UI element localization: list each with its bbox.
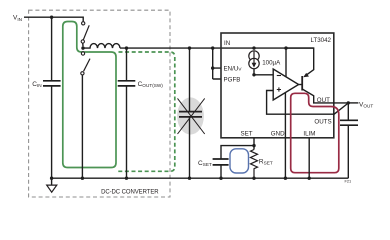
wire CSET bottom lead [220,165,222,178]
junction IN / amp supply [284,46,287,49]
svg-text:CIN: CIN [32,81,41,88]
ground rail [52,177,349,179]
wire to amp inverting input [254,74,273,76]
ground symbol [51,178,53,185]
wire COUT lower lead [347,125,349,178]
svg-text:ILIM: ILIM [303,131,315,138]
junction VIN/CIN [50,16,53,19]
wire COUT upper lead [347,103,349,120]
wire bypass cap upper lead [189,48,191,112]
wire amp supply [285,48,287,76]
current source I1 100uA [249,51,259,61]
wire CIN upper lead [51,17,53,81]
capacitor CIN [43,81,61,86]
switch S2 top contact [81,52,84,55]
junction IN / 100uA source [252,46,255,49]
wire amp output to base [299,84,303,86]
transistor Q1 collector wire to OUT [302,89,348,103]
inductor L1 [83,44,120,49]
plus sign [277,87,281,91]
junction IN rail / EN-UV tie [211,46,214,49]
wire EN/UV PGFB tie [213,48,221,79]
minus sign [277,75,281,77]
junction rail S2 [81,177,84,180]
svg-text:IN: IN [224,40,230,47]
wire OUTS kelvin diagonal [334,103,349,114]
svg-text:COUT(SW): COUT(SW) [138,81,164,88]
switch S2 bottom contact [81,72,84,75]
wire CIN lower lead [51,86,53,178]
junction IN rail / bypass cap [188,46,191,49]
junction rail ILIM [308,177,311,180]
wire ILIM to ground [308,138,310,178]
switch S1 blade [83,25,89,39]
resistor RSET [251,150,258,179]
capacitor COUT(SW) [118,81,136,86]
blue highlight box [230,149,249,173]
junction EN/UV branch [211,66,214,69]
junction rail GND pin [284,177,287,180]
wire IN rail [120,47,314,49]
EMI starburst glow [177,97,204,134]
junction VOUT node [347,101,350,104]
wire bypass cap lower lead [189,117,191,178]
capacitor bypass (in starburst) [179,112,202,117]
radiated loop extension (green dashed) [118,52,175,171]
svg-text:DC-DC CONVERTER: DC-DC CONVERTER [101,189,159,195]
junction rail bypass cap [188,177,191,180]
wire switch S2 to ground rail [81,75,83,178]
transistor Q1 base bar [301,76,303,91]
DC-DC converter dashed box [29,10,170,197]
svg-text:LT3042: LT3042 [310,37,331,44]
op-amp A1 [273,69,298,100]
junction L1/COUT(SW) [125,46,128,49]
svg-text:SET: SET [241,131,253,138]
capacitor CSET [213,159,229,165]
transistor Q1 emitter wire from IN [286,48,314,76]
wire SET pin external [253,138,255,150]
wire source to SET node [253,69,255,75]
capacitor COUT [340,120,358,125]
svg-text:RSET: RSET [259,158,273,165]
transistor Q1 emitter arrowhead [303,73,309,77]
output loop (red) [291,93,339,172]
svg-text:100µA: 100µA [262,59,281,66]
wire GND internal [284,93,286,179]
junction rail CIN [50,177,53,180]
svg-text:VIN: VIN [13,15,22,22]
junction SET node [252,73,255,76]
EMI starburst rays [178,98,205,134]
junction SET/CSET [252,144,255,147]
hot loop (green solid) [63,22,116,168]
switch S2 blade [84,59,90,72]
svg-text:OUTS: OUTS [314,119,331,126]
svg-text:GND: GND [271,131,285,138]
wire COUT(SW) lower lead [126,86,128,178]
switch S1 bottom contact [81,40,84,43]
wire CSET top lead [221,146,254,159]
wire switch S1 to SW node [82,43,84,46]
svg-text:PGFB: PGFB [224,76,241,83]
junction rail RSET [252,177,255,180]
switch S1 top contact [82,22,85,25]
IC U1 LT3042 box [221,33,334,138]
wire VOUT stub [348,102,358,104]
svg-text:EN/UV: EN/UV [224,65,243,72]
junction rail CSET [219,177,222,180]
wire VIN to switch [24,17,83,21]
junction rail COUT(SW) [125,177,128,180]
svg-text:CSET: CSET [198,160,212,167]
svg-text:VOUT: VOUT [359,101,373,108]
svg-text:F21: F21 [345,178,352,183]
wire COUT(SW) upper lead [126,48,128,81]
junction SW node [81,46,84,49]
wire amp noninverting to OUTS [267,91,334,115]
